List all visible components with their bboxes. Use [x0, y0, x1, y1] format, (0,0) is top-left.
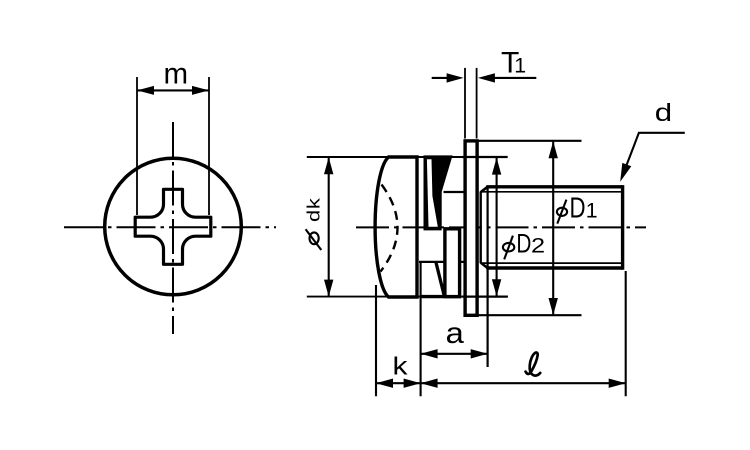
- thread crest top: [486, 185, 622, 188]
- l extension right: [625, 271, 627, 396]
- m extension line right: [208, 77, 210, 215]
- T1 arrow right: [494, 77, 536, 79]
- svg-text:D: D: [516, 229, 531, 259]
- shaft end: [621, 185, 624, 270]
- shank top line: [444, 191, 466, 193]
- thread root bottom: [481, 262, 621, 264]
- d leader line: [622, 133, 685, 178]
- shank bottom line: [419, 261, 465, 263]
- thread root top: [481, 191, 621, 193]
- T1 extension right: [476, 68, 478, 139]
- l (script ell) label: [526, 353, 541, 376]
- l arrowheads: [421, 379, 438, 388]
- D2 extension top through washer: [462, 156, 508, 158]
- svg-text:a: a: [446, 316, 465, 350]
- center line: [356, 226, 646, 228]
- spring washer top section slot: [427, 159, 438, 227]
- svg-text:d: d: [655, 98, 672, 126]
- a dimension line: [421, 353, 488, 355]
- spring washer bottom cut wedge: [436, 263, 444, 297]
- k extension left: [375, 285, 377, 396]
- spring washer top section: [424, 155, 453, 230]
- shaft left face: [480, 192, 482, 264]
- k arrowheads: [376, 379, 393, 388]
- chamfer top: [481, 187, 488, 192]
- chamfer bottom: [481, 263, 488, 268]
- D1 extension top: [478, 140, 582, 142]
- center line vertical: [172, 122, 174, 334]
- head circle: [105, 158, 242, 295]
- svg-text:k: k: [393, 352, 408, 380]
- a extension left / k right / l left shared: [420, 262, 422, 396]
- extension line top (dk / D2): [307, 156, 508, 158]
- φD1 dimension line: [552, 142, 554, 315]
- center line horizontal: [64, 226, 276, 228]
- φD2 label: [503, 236, 514, 260]
- φdk dimension line: [328, 157, 330, 296]
- extension line bottom (dk / D2): [307, 296, 508, 298]
- svg-text:dk: dk: [305, 197, 324, 222]
- flat washer: [465, 141, 477, 315]
- φdk label (rotated): [305, 197, 324, 250]
- m dimension line: [137, 89, 209, 91]
- T1 extension left: [464, 68, 466, 139]
- φD1 label: [557, 200, 567, 224]
- svg-text:1: 1: [586, 198, 598, 222]
- recess depth dashed arc: [381, 185, 398, 272]
- m arrowhead right: [192, 86, 209, 95]
- φdk arrowhead bottom: [324, 280, 333, 297]
- screw head side profile: [375, 157, 417, 297]
- T1 arrow left: [432, 77, 448, 79]
- φdk arrowhead top: [324, 157, 333, 174]
- spring washer bottom-left edge: [420, 295, 462, 298]
- svg-text:D: D: [570, 193, 586, 224]
- thread crest bottom: [486, 266, 622, 269]
- k + l dimension line: [376, 382, 626, 384]
- m arrowhead left: [137, 86, 154, 95]
- D1 extension bottom: [478, 314, 582, 316]
- thread runout + a extension right: [487, 187, 489, 367]
- D2 extension bottom through washer: [462, 296, 508, 298]
- svg-text:2: 2: [531, 233, 545, 257]
- svg-text:m: m: [164, 58, 189, 91]
- m extension line left: [136, 77, 138, 215]
- phillips recess cross: [135, 189, 211, 264]
- spring washer bottom section: [445, 229, 460, 297]
- φD2 dimension line: [496, 158, 498, 296]
